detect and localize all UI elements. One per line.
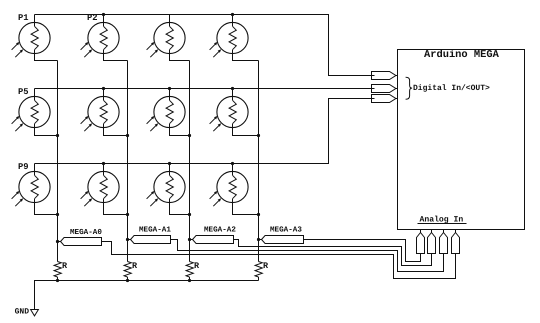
wire row 2 net <box>35 88 375 90</box>
resistor R (column 1) <box>54 262 61 278</box>
bus arrow digital 2 <box>372 85 396 93</box>
node junction row 2 col 4 <box>231 87 234 90</box>
pin analog A0 connector <box>420 230 422 233</box>
wire column 4 vertical <box>258 61 260 262</box>
node junction MEGA-A2 tap <box>188 238 191 241</box>
node junction ground rail col 3 <box>188 279 191 282</box>
photoresistor P8 <box>210 96 249 131</box>
net flag MEGA-A0 <box>61 238 102 246</box>
wire P9 top lead <box>34 164 36 172</box>
photoresistor P6 <box>81 96 120 131</box>
svg-text:GND: GND <box>15 307 30 316</box>
wire P7 bottom lead <box>170 128 190 136</box>
bus arrow digital 3 <box>372 95 396 103</box>
node junction column 1 row 3 <box>56 213 59 216</box>
wire P12 top lead <box>232 164 234 172</box>
svg-text:R: R <box>194 261 200 271</box>
wire P8 bottom lead <box>233 128 259 136</box>
wire P7 top lead <box>169 89 171 97</box>
wire P3 bottom lead <box>170 54 190 61</box>
net flag MEGA-A3 <box>262 236 304 244</box>
wire P1 top lead <box>34 15 36 23</box>
wire row 3 net <box>35 99 375 164</box>
photoresistor P1 <box>12 22 51 57</box>
wire P5 bottom lead <box>35 128 58 136</box>
photoresistor P5 <box>12 96 51 131</box>
bus arrow digital 1 <box>372 72 396 80</box>
brace digital group <box>406 77 413 99</box>
node junction ground rail col 2 <box>126 279 129 282</box>
wire P6 bottom lead <box>104 128 128 136</box>
photoresistor P9 <box>12 171 51 206</box>
wire column 3 vertical <box>189 61 191 262</box>
node junction ground rail col 1 <box>56 279 59 282</box>
node junction row 1 col 2 <box>102 13 105 16</box>
svg-text:R: R <box>132 261 138 271</box>
node junction MEGA-A3 tap <box>257 238 260 241</box>
svg-text:MEGA-A1: MEGA-A1 <box>139 225 171 234</box>
photoresistor P11 <box>147 171 186 206</box>
wire P2 bottom lead <box>104 54 128 61</box>
svg-text:P1: P1 <box>18 13 29 23</box>
resistor R (column 2) <box>124 262 131 278</box>
net flag MEGA-A2 <box>193 236 234 244</box>
photoresistor P7 <box>147 96 186 131</box>
wire P11 bottom lead <box>170 203 190 215</box>
pin analog A2 connector <box>443 230 445 233</box>
wire ground rail <box>35 281 259 310</box>
wire P10 bottom lead <box>104 203 128 215</box>
IC U1 Arduino MEGA box <box>398 50 525 230</box>
node junction column 4 row 3 <box>257 213 260 216</box>
wire column 2 vertical <box>127 61 129 262</box>
photoresistor P12 <box>210 171 249 206</box>
svg-text:R: R <box>62 261 68 271</box>
wire net MEGA-A1 <box>128 240 444 272</box>
node junction column 3 row 2 <box>188 134 191 137</box>
svg-text:Digital In/<OUT>: Digital In/<OUT> <box>413 84 490 93</box>
wire P2 top lead <box>103 15 105 23</box>
node junction column 1 row 2 <box>56 134 59 137</box>
node junction row 2 col 3 <box>168 87 171 90</box>
wire net MEGA-A3 <box>259 240 421 262</box>
wire P6 top lead <box>103 89 105 97</box>
wire P4 top lead <box>232 15 234 23</box>
wire P4 bottom lead <box>233 54 259 61</box>
resistor R (column 4) <box>255 262 262 278</box>
node junction column 4 row 2 <box>257 134 260 137</box>
node junction column 2 row 3 <box>126 213 129 216</box>
svg-text:P9: P9 <box>18 162 29 172</box>
wire row 1 net <box>35 15 375 76</box>
wire P12 bottom lead <box>233 203 259 215</box>
svg-text:MEGA-A0: MEGA-A0 <box>70 228 102 237</box>
node junction row 1 col 4 <box>231 13 234 16</box>
wire net MEGA-A0 <box>58 242 456 279</box>
photoresistor P3 <box>147 22 186 57</box>
svg-text:MEGA-A2: MEGA-A2 <box>204 225 236 234</box>
wire P11 top lead <box>169 164 171 172</box>
node junction MEGA-A0 tap <box>56 240 59 243</box>
photoresistor P10 <box>81 171 120 206</box>
wire net MEGA-A2 <box>190 240 432 266</box>
svg-text:P5: P5 <box>18 87 29 97</box>
node junction column 2 row 2 <box>126 134 129 137</box>
wire P8 top lead <box>232 89 234 97</box>
node junction column 3 row 3 <box>188 213 191 216</box>
pin analog A3 connector <box>455 230 457 233</box>
node junction row 3 col 3 <box>168 162 171 165</box>
wire P9 bottom lead <box>35 203 58 215</box>
node junction row 3 col 2 <box>102 162 105 165</box>
svg-text:R: R <box>263 261 269 271</box>
node junction MEGA-A1 tap <box>126 238 129 241</box>
wire P5 top lead <box>34 89 36 97</box>
wire P3 top lead <box>169 15 171 23</box>
svg-text:Arduino MEGA: Arduino MEGA <box>424 49 500 61</box>
wire column 1 vertical <box>57 61 59 262</box>
node junction row 2 col 2 <box>102 87 105 90</box>
ground symbol <box>31 310 39 316</box>
node junction row 3 col 4 <box>231 162 234 165</box>
net flag MEGA-A1 <box>131 236 171 244</box>
svg-text:MEGA-A3: MEGA-A3 <box>270 225 302 234</box>
photoresistor P2 <box>81 22 120 57</box>
wire P10 top lead <box>103 164 105 172</box>
pin analog A1 connector <box>431 230 433 233</box>
svg-text:P2: P2 <box>87 13 98 23</box>
wire P1 bottom lead <box>35 54 58 61</box>
photoresistor P4 <box>210 22 249 57</box>
resistor R (column 3) <box>186 262 193 278</box>
